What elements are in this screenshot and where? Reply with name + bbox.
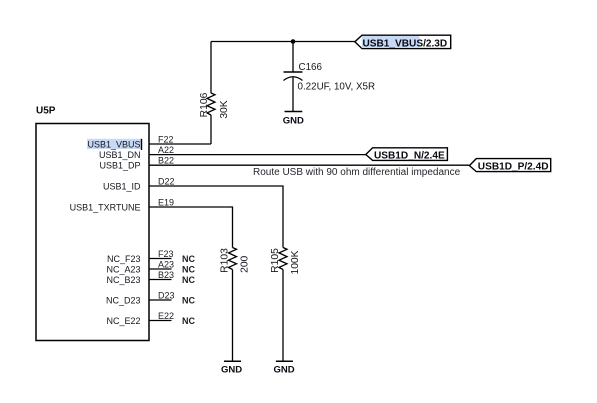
svg-text:R105: R105 <box>270 248 281 273</box>
NC marker at E22 <box>182 316 195 326</box>
svg-text:Route USB with 90 ohm differen: Route USB with 90 ohm differential imped… <box>253 167 461 178</box>
NC marker at A23 <box>182 264 195 274</box>
svg-text:R103: R103 <box>220 248 231 273</box>
svg-text:NC_D23: NC_D23 <box>106 295 141 305</box>
net flag USB1_VBUS/2.3D <box>355 35 451 49</box>
svg-text:NC_E22: NC_E22 <box>106 316 140 326</box>
net flag USB1D_P/2.4D <box>469 159 550 173</box>
GND label at C166 <box>283 115 304 126</box>
NC stub wire F23 <box>149 258 172 260</box>
R103 value 200 <box>240 255 251 272</box>
svg-text:USB1_ID: USB1_ID <box>103 181 141 191</box>
NC stub wire A23 <box>149 268 172 270</box>
resistor R106 <box>207 93 215 115</box>
svg-text:NC: NC <box>182 264 195 274</box>
pin number B22 <box>158 155 174 165</box>
svg-text:0.22UF, 10V, X5R: 0.22UF, 10V, X5R <box>298 82 376 93</box>
wire pin E19 to R103 <box>149 207 233 248</box>
R106 value 30K <box>219 100 230 118</box>
IC U5P body <box>36 124 149 341</box>
NC marker at F23 <box>182 254 195 264</box>
pin number D22 <box>158 176 175 186</box>
NC marker at B23 <box>182 275 195 285</box>
pin number B23 <box>158 270 174 280</box>
NC marker at D23 <box>182 295 195 305</box>
C166 ref label <box>299 62 323 73</box>
R103 ref label <box>220 248 231 273</box>
svg-text:F23: F23 <box>158 249 174 259</box>
pin name NC_E22 <box>106 316 140 326</box>
svg-text:USB1_TXRTUNE: USB1_TXRTUNE <box>70 202 141 212</box>
pin number F22 <box>158 134 174 144</box>
wire pin D22 to R105 <box>149 186 283 248</box>
svg-text:NC_F23: NC_F23 <box>107 254 141 264</box>
svg-text:NC: NC <box>182 275 195 285</box>
ground symbol at R105 <box>276 360 293 362</box>
resistor R105 <box>279 248 287 270</box>
pin name NC_B23 <box>106 275 140 285</box>
svg-text:NC_B23: NC_B23 <box>106 275 140 285</box>
svg-text:R106: R106 <box>199 92 210 117</box>
svg-text:USB1D_N/2.4E: USB1D_N/2.4E <box>374 151 445 162</box>
svg-text:A22: A22 <box>158 145 174 155</box>
svg-text:B22: B22 <box>158 155 174 165</box>
pin name USB1_DN <box>99 150 141 160</box>
note Route USB <box>253 167 461 178</box>
resistor R103 <box>229 248 237 270</box>
svg-text:30K: 30K <box>219 100 230 118</box>
wire R106 lower lead <box>210 115 212 144</box>
pin number E22 <box>158 311 174 321</box>
svg-text:E19: E19 <box>158 197 174 207</box>
wire R106 upper lead <box>210 42 212 94</box>
svg-text:F22: F22 <box>158 134 174 144</box>
svg-text:U5P: U5P <box>36 106 56 117</box>
net flag USB1D_N/2.4E <box>366 148 448 162</box>
svg-text:200: 200 <box>240 255 251 272</box>
wire pin B22 to net flag <box>149 164 469 166</box>
svg-text:USB1_VBUS: USB1_VBUS <box>87 140 140 150</box>
svg-text:USB1_VBUS/2.3D: USB1_VBUS/2.3D <box>363 38 448 49</box>
pin number A23 <box>158 259 174 269</box>
svg-text:A23: A23 <box>158 259 174 269</box>
R106 ref label <box>199 92 210 117</box>
svg-text:D22: D22 <box>158 176 175 186</box>
ground symbol at C166 <box>285 111 303 113</box>
capacitor C166 <box>284 72 303 81</box>
R105 ref label <box>270 248 281 273</box>
text cursor after USB1_VBUS <box>141 139 142 150</box>
wire R105 lower lead <box>282 270 284 362</box>
pin name USB1_VBUS <box>87 140 140 150</box>
wire top rail to flag <box>211 41 355 43</box>
svg-text:E22: E22 <box>158 311 174 321</box>
svg-text:USB1_DP: USB1_DP <box>99 161 140 171</box>
svg-text:NC: NC <box>182 254 195 264</box>
GND label at R105 <box>273 365 294 376</box>
NC stub wire B23 <box>149 279 172 281</box>
svg-text:GND: GND <box>273 365 294 376</box>
wire capacitor bottom lead <box>292 78 294 112</box>
junction dot <box>291 39 296 44</box>
svg-text:GND: GND <box>221 365 242 376</box>
svg-text:NC: NC <box>182 295 195 305</box>
GND label at R103 <box>221 365 242 376</box>
svg-text:GND: GND <box>283 115 304 126</box>
wire pin A22 to net flag <box>149 154 366 156</box>
pin name NC_A23 <box>106 264 140 274</box>
R105 value 100K <box>290 250 301 274</box>
ground symbol at R103 <box>224 360 241 362</box>
wire R103 lower lead <box>232 270 234 362</box>
highlight selection on pin name USB1_VBUS <box>87 139 141 149</box>
wire capacitor top lead <box>292 42 294 73</box>
svg-text:D23: D23 <box>158 290 175 300</box>
wire pin F22 stub <box>149 143 211 145</box>
pin name USB1_TXRTUNE <box>70 202 141 212</box>
pin number A22 <box>158 145 174 155</box>
pin number F23 <box>158 249 174 259</box>
pin name NC_D23 <box>106 295 141 305</box>
reference designator U5P <box>36 106 56 117</box>
svg-text:100K: 100K <box>290 250 301 274</box>
pin number E19 <box>158 197 174 207</box>
svg-text:USB1_DN: USB1_DN <box>99 150 141 160</box>
pin name NC_F23 <box>107 254 141 264</box>
pin number D23 <box>158 290 175 300</box>
NC stub wire E22 <box>149 320 172 322</box>
svg-text:B23: B23 <box>158 270 174 280</box>
C166 value <box>298 82 376 93</box>
svg-text:NC: NC <box>182 316 195 326</box>
pin name USB1_DP <box>99 161 140 171</box>
svg-text:NC_A23: NC_A23 <box>106 264 140 274</box>
svg-text:USB1D_P/2.4D: USB1D_P/2.4D <box>478 161 549 172</box>
NC stub wire D23 <box>149 299 172 301</box>
pin name USB1_ID <box>103 181 141 191</box>
svg-text:C166: C166 <box>299 62 323 73</box>
